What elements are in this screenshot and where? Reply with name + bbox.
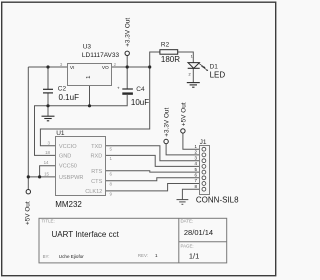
wire connector pin 8 to ground <box>182 189 202 199</box>
connector pin 5 <box>202 170 206 174</box>
terminal +5V Out (left) <box>25 190 32 226</box>
svg-text:VCCIO: VCCIO <box>59 144 77 150</box>
svg-text:1: 1 <box>86 76 92 79</box>
svg-text:1/1: 1/1 <box>189 252 199 261</box>
svg-text:MM232: MM232 <box>55 200 82 209</box>
svg-text:1: 1 <box>191 54 193 58</box>
wire rail to R2 left lead <box>150 52 160 67</box>
terminal +3.3V Out (top) <box>125 18 132 56</box>
wire TXD to connector pin 3 <box>106 146 202 161</box>
wire regulator GND pin riser <box>89 86 91 106</box>
chip U1 MM232 <box>44 130 113 209</box>
svg-text:VCC50: VCC50 <box>59 164 77 170</box>
node junction R2 branch on VO rail <box>148 65 151 68</box>
svg-text:PAGE:: PAGE: <box>181 243 194 248</box>
svg-text:180R: 180R <box>161 55 180 64</box>
svg-text:1: 1 <box>155 253 158 258</box>
connector pin 6 <box>202 176 206 180</box>
svg-text:UART Interface cct: UART Interface cct <box>52 230 120 239</box>
svg-text:RXD: RXD <box>90 153 102 159</box>
svg-text:GND: GND <box>59 153 71 159</box>
wire CTS to connector pin 6 <box>106 178 202 181</box>
wire 3.3V terminal to rail and C4 top <box>126 55 128 89</box>
svg-text:U3: U3 <box>83 44 92 51</box>
svg-text:R2: R2 <box>161 42 170 49</box>
node junction USBPWR wire on +5V vertical <box>27 175 30 178</box>
svg-text:+5V Out: +5V Out <box>180 102 187 126</box>
svg-text:DATE:: DATE: <box>181 219 194 224</box>
svg-text:U1: U1 <box>56 130 65 137</box>
connector pin 2 <box>202 153 206 157</box>
svg-text:28/01/14: 28/01/14 <box>184 228 213 237</box>
resistor R2 180R <box>160 42 180 64</box>
capacitor C4 10uF polarized <box>117 86 149 107</box>
svg-text:D1: D1 <box>210 63 219 70</box>
wire CLK12 to connector pin 7 <box>106 184 202 191</box>
connector pin 3 <box>202 159 206 163</box>
connector pin 7 <box>202 182 206 186</box>
LED D1 <box>188 54 226 79</box>
wire ground rail <box>35 95 128 155</box>
node junction regulator GND on ground rail <box>88 104 91 107</box>
wire RXD to connector pin 4 <box>106 155 202 166</box>
node junction 3.3V terminal / C4 on VO rail <box>126 65 129 68</box>
svg-text:15: 15 <box>44 171 49 176</box>
svg-text:TXD: TXD <box>91 144 102 150</box>
svg-text:CLK12: CLK12 <box>85 189 102 195</box>
ground under C2 <box>42 116 55 121</box>
wire C2 bottom to ground <box>47 93 49 116</box>
svg-text:+3.3V Out: +3.3V Out <box>125 18 132 47</box>
svg-text:C4: C4 <box>136 86 145 93</box>
ground under connector pin 8 wire <box>177 200 189 205</box>
node junction C2 top on +5V rail <box>46 65 49 68</box>
wire +3.3V Out terminal to connector pin 2 <box>166 144 202 155</box>
wire +5V input rail to regulator VI <box>28 66 67 68</box>
svg-text:C2: C2 <box>58 86 67 93</box>
svg-text:USBPWR: USBPWR <box>59 175 84 181</box>
terminal +5V Out (middle) <box>180 102 187 133</box>
svg-text:+5V Out: +5V Out <box>25 201 32 225</box>
svg-text:2: 2 <box>189 73 191 77</box>
node junction C2 on ground rail <box>46 104 49 107</box>
wire regulator VO output rail <box>112 66 150 68</box>
wire LED cathode to ground <box>192 69 194 83</box>
wire USBPWR pin 15 to +5V vertical <box>28 176 56 178</box>
svg-text:CTS: CTS <box>91 179 102 185</box>
svg-text:BY:: BY: <box>43 254 50 259</box>
svg-text:0.1uF: 0.1uF <box>59 93 80 102</box>
svg-text:RTS: RTS <box>91 169 102 175</box>
svg-text:18: 18 <box>45 150 50 155</box>
svg-text:CONN-SIL8: CONN-SIL8 <box>196 195 239 204</box>
svg-text:14: 14 <box>44 160 49 165</box>
regulator U3 LD1117AV33 <box>60 44 120 86</box>
svg-text:+: + <box>117 86 120 91</box>
wire RTS to connector pin 5 <box>106 171 202 172</box>
svg-text:LD1117AV33: LD1117AV33 <box>82 52 120 59</box>
wire C2 top connection <box>47 67 49 89</box>
wire R2 right lead to LED <box>178 52 194 63</box>
svg-text:REV:: REV: <box>138 253 148 258</box>
svg-text:LED: LED <box>210 71 226 80</box>
wire +5V Out terminal to connector pin 1 <box>183 133 202 149</box>
connector pin 4 <box>202 165 206 169</box>
connector J1 CONN-SIL8 <box>195 139 240 205</box>
title block <box>39 218 227 263</box>
svg-text:TITLE:: TITLE: <box>42 219 55 224</box>
wire VCC50 pin 14 to +5V net <box>40 166 56 177</box>
terminal +3.3V Out (middle) <box>164 108 171 144</box>
svg-text:+3.3V Out: +3.3V Out <box>164 108 171 137</box>
svg-text:10uF: 10uF <box>131 98 149 107</box>
wire 3.3V rail down and over to VCCIO pin 3 <box>40 67 149 146</box>
svg-text:VI: VI <box>70 65 75 71</box>
connector pin 1 <box>202 147 206 151</box>
connector pin 8 <box>202 187 206 191</box>
node junction VCC50 riser on USBPWR wire <box>38 175 41 178</box>
svg-text:Uche Ejiofor: Uche Ejiofor <box>59 254 84 259</box>
ground under LED <box>187 83 200 88</box>
wire +5V left vertical down to terminal <box>27 67 29 190</box>
svg-text:VO: VO <box>102 65 109 71</box>
capacitor C2 0.1uF <box>43 89 53 93</box>
svg-text:J1: J1 <box>200 139 207 146</box>
